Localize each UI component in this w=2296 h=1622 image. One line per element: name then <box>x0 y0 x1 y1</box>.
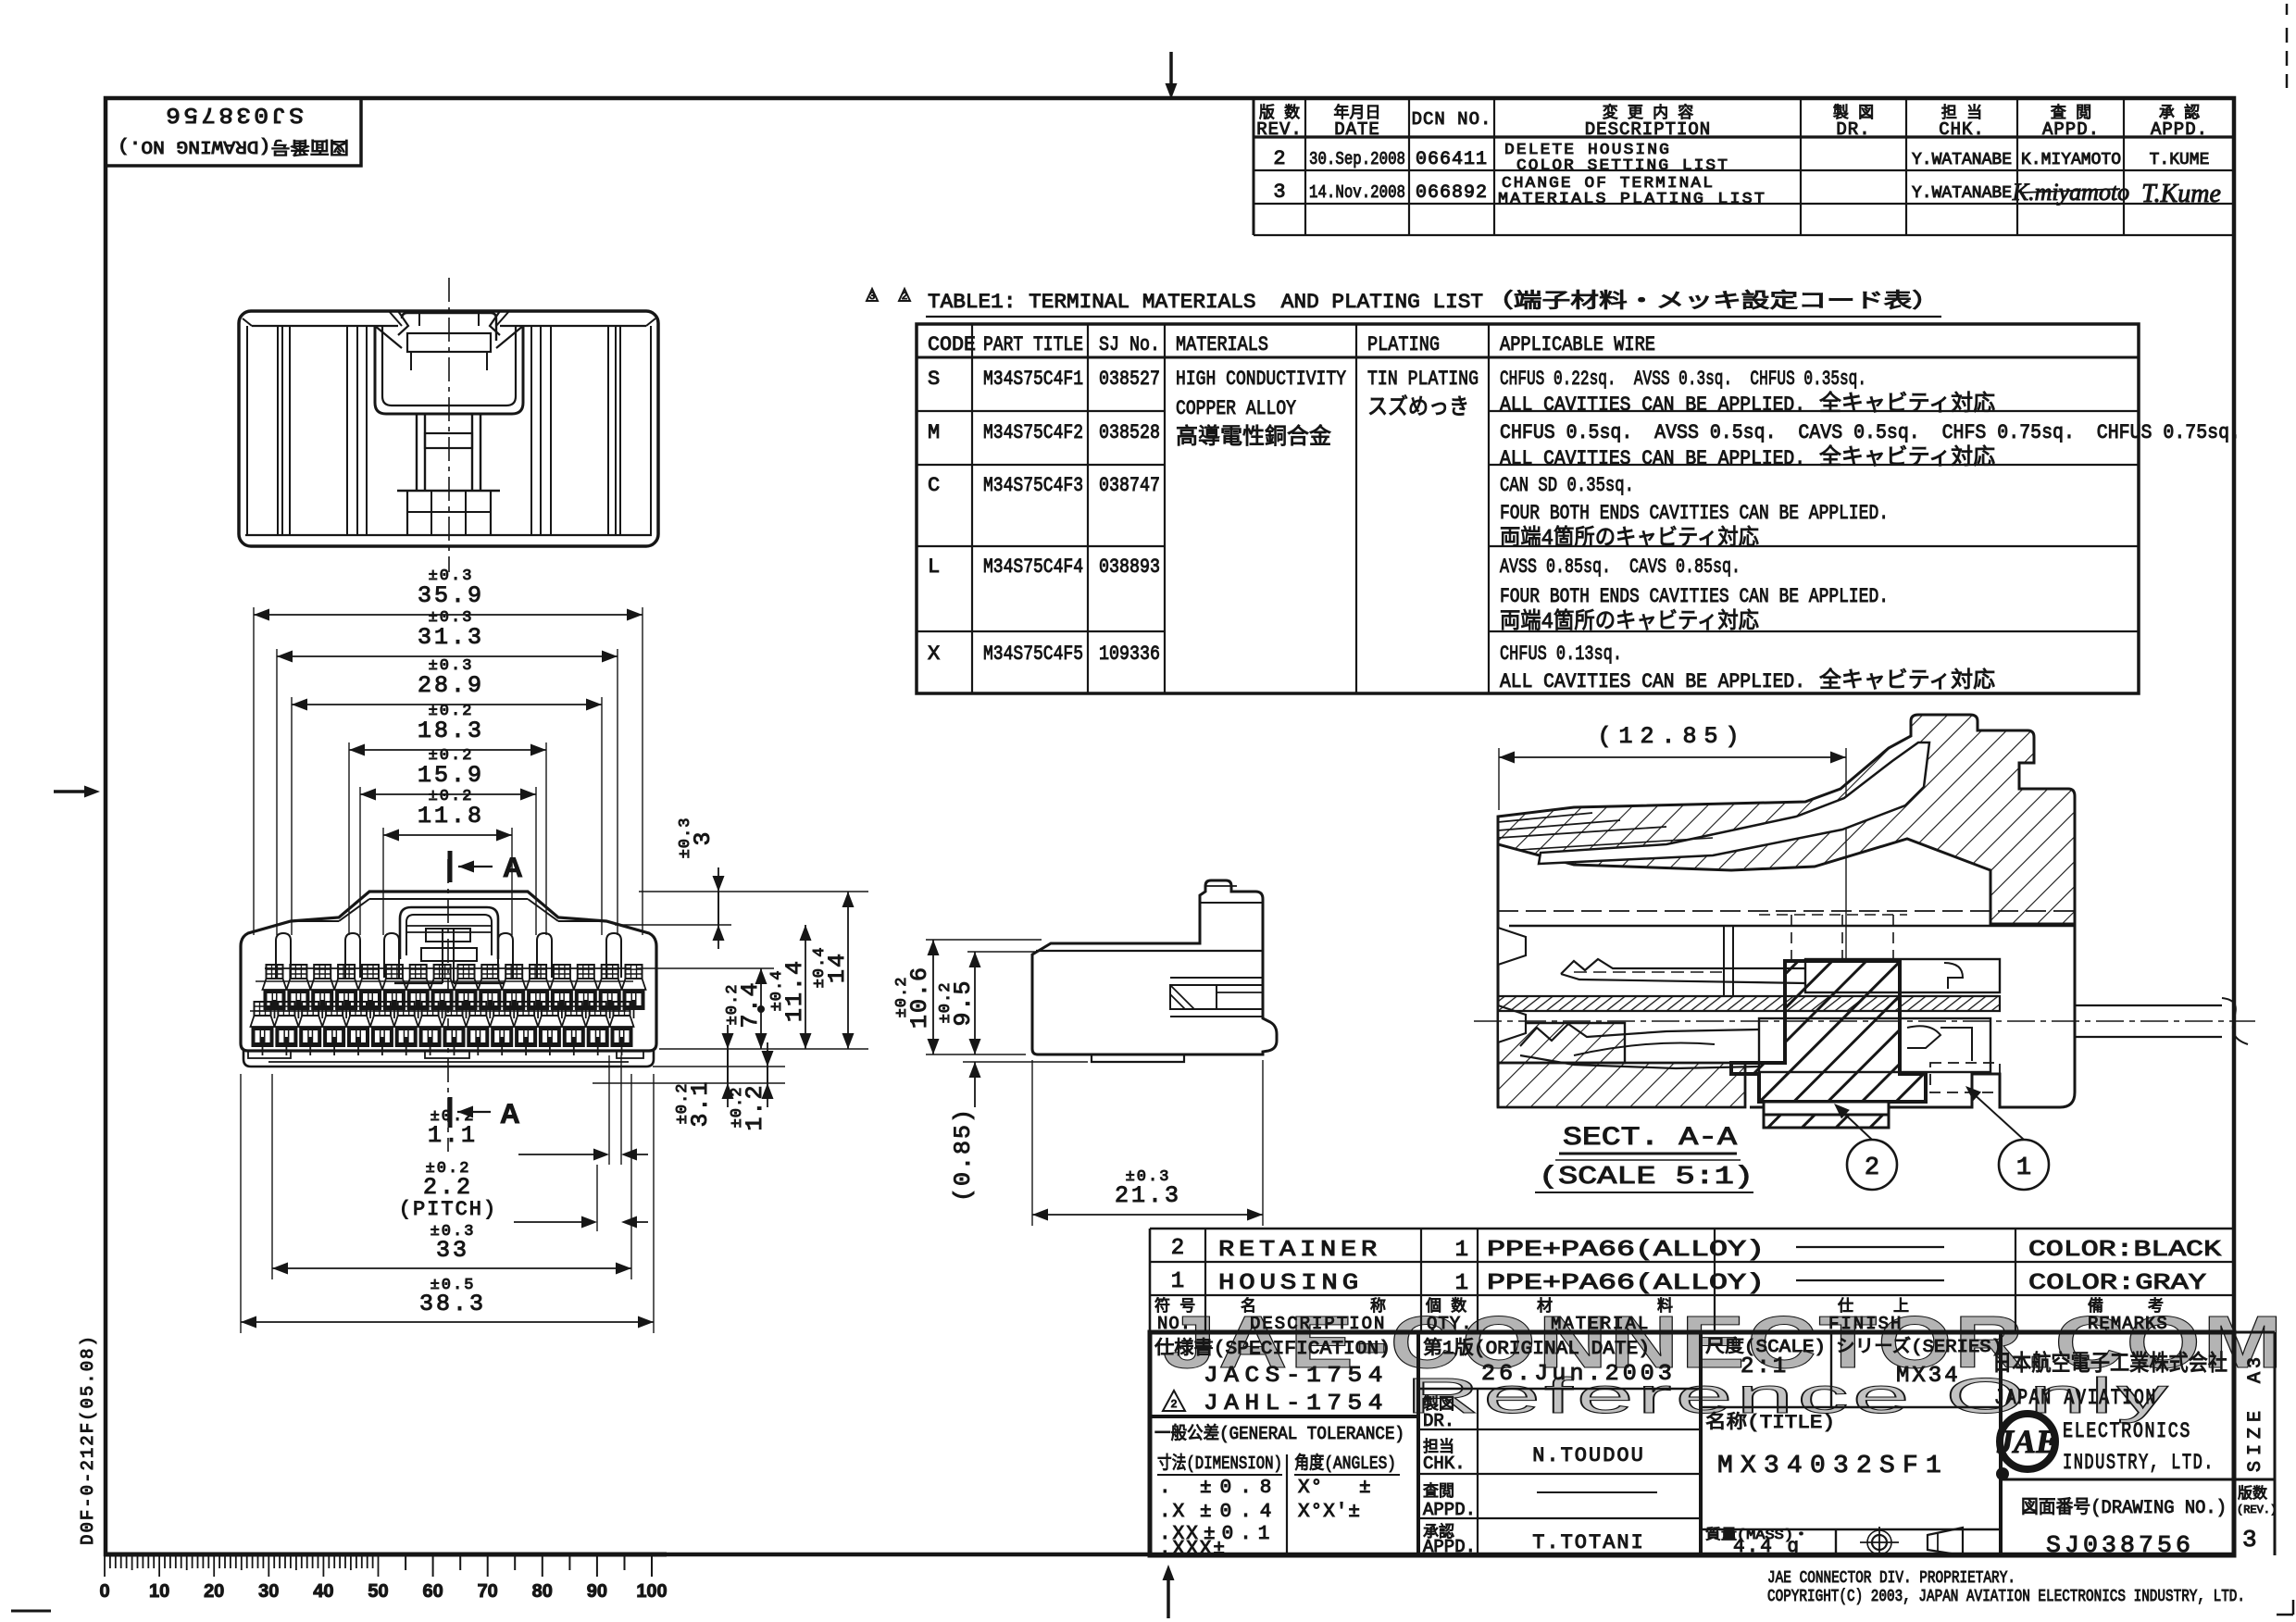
section hidden line <box>1498 910 2075 912</box>
svg-text:両端4箇所のキャビティ対応: 両端4箇所のキャビティ対応 <box>1500 608 1759 635</box>
svg-text:M34S75C4F1: M34S75C4F1 <box>983 368 1083 391</box>
svg-text:L: L <box>928 555 940 579</box>
svg-text:4.4 g: 4.4 g <box>1733 1537 1801 1558</box>
rotated drawing number box <box>106 98 361 166</box>
svg-text:SJ No.: SJ No. <box>1099 333 1160 356</box>
side view outline <box>1032 880 1277 1054</box>
svg-text:50: 50 <box>368 1581 388 1602</box>
svg-text:COLOR SETTING LIST: COLOR SETTING LIST <box>1516 157 1729 175</box>
svg-text:(REV.): (REV.) <box>2237 1503 2277 1516</box>
svg-text:DATE: DATE <box>1334 119 1380 140</box>
svg-text:11.8: 11.8 <box>418 803 484 830</box>
svg-text:T.Kume: T.Kume <box>2141 180 2221 208</box>
svg-text:3: 3 <box>869 292 876 303</box>
svg-text:SIZE: SIZE <box>2245 1405 2266 1472</box>
side view left dims <box>926 939 1042 941</box>
svg-text:APPD.: APPD. <box>2151 119 2208 140</box>
rear view inner lines <box>252 325 398 327</box>
svg-text:70: 70 <box>478 1581 498 1602</box>
svg-text:全キャビティ対応: 全キャビティ対応 <box>1819 668 1995 694</box>
svg-text:.: . <box>1159 1478 1171 1499</box>
svg-text:全キャビティ対応: 全キャビティ対応 <box>1819 391 1995 418</box>
section cut marks A-A <box>448 851 453 882</box>
svg-text:D0F-0-212F(05.08): D0F-0-212F(05.08) <box>78 1334 98 1545</box>
svg-text:038747: 038747 <box>1099 474 1160 497</box>
svg-text:SECT. A-A: SECT. A-A <box>1563 1124 1737 1153</box>
svg-text:名称(TITLE): 名称(TITLE) <box>1705 1411 1835 1434</box>
trim mark bottom left <box>11 1610 51 1613</box>
svg-text:066411: 066411 <box>1416 149 1488 170</box>
svg-text:038528: 038528 <box>1099 421 1160 444</box>
svg-text:14: 14 <box>824 952 851 983</box>
wire stub <box>2075 1004 2222 1006</box>
svg-text:38.3: 38.3 <box>419 1291 486 1317</box>
rear view center structure <box>398 311 408 335</box>
front view centerline <box>447 859 449 1152</box>
svg-text:図面番号(DRAWING NO.): 図面番号(DRAWING NO.) <box>118 136 349 157</box>
svg-text:M34S75C4F4: M34S75C4F4 <box>983 555 1083 579</box>
trim mark bottom right <box>2277 1614 2293 1616</box>
svg-text:寸法(DIMENSION): 寸法(DIMENSION) <box>1157 1453 1282 1474</box>
svg-text:MATERIALS: MATERIALS <box>1176 333 1268 356</box>
retainer (part 2) <box>1731 961 1926 1102</box>
svg-text:10.6: 10.6 <box>906 966 933 1029</box>
balloon 1 <box>1999 1140 2049 1190</box>
svg-text:Y.WATANABE: Y.WATANABE <box>1912 151 2012 169</box>
svg-text:DESCRIPTION: DESCRIPTION <box>1585 119 1711 140</box>
svg-text:21.3: 21.3 <box>1115 1182 1181 1209</box>
svg-text:26.Jun.2003: 26.Jun.2003 <box>1481 1362 1676 1387</box>
svg-text:10: 10 <box>149 1581 169 1602</box>
svg-text:第1版(ORIGINAL DATE): 第1版(ORIGINAL DATE) <box>1423 1337 1650 1360</box>
svg-text:M: M <box>928 421 940 444</box>
svg-text:査閲: 査閲 <box>1423 1482 1454 1502</box>
svg-text:CHK.: CHK. <box>1423 1454 1466 1474</box>
svg-text:C: C <box>928 474 940 497</box>
svg-text:A3: A3 <box>2245 1354 2266 1383</box>
upper terminal <box>1561 959 1805 974</box>
svg-text:2: 2 <box>1170 1398 1177 1411</box>
svg-text:COPPER ALLOY: COPPER ALLOY <box>1176 397 1296 420</box>
trim mark top right <box>2286 4 2289 15</box>
svg-text:TIN PLATING: TIN PLATING <box>1367 368 1479 391</box>
revision table <box>1253 98 1255 235</box>
svg-text:±0.4: ±0.4 <box>1200 1502 1279 1523</box>
revision triangles <box>867 289 878 301</box>
svg-text:TABLE1: TERMINAL MATERIALS AN: TABLE1: TERMINAL MATERIALS AND PLATING L… <box>928 291 1483 314</box>
svg-text:90: 90 <box>587 1581 607 1602</box>
svg-text:DR.: DR. <box>1836 119 1870 140</box>
svg-text:仕様書(SPECIFICATION): 仕様書(SPECIFICATION) <box>1154 1337 1391 1360</box>
fold mark left <box>54 786 100 798</box>
svg-text:109336: 109336 <box>1099 643 1160 666</box>
svg-text:X: X <box>928 643 940 666</box>
svg-text:31.3: 31.3 <box>418 624 484 651</box>
svg-text:15.9: 15.9 <box>418 762 484 789</box>
hidden dashed details <box>1791 915 1792 959</box>
svg-text:.X: .X <box>1159 1502 1186 1523</box>
front view roof lines <box>291 920 339 922</box>
scale box <box>1830 1332 1832 1407</box>
JAE logo <box>2000 1414 2055 1469</box>
svg-text:シリーズ(SERIES): シリーズ(SERIES) <box>1836 1336 2003 1357</box>
svg-text:全キャビティ対応: 全キャビティ対応 <box>1819 444 1995 471</box>
svg-text:S: S <box>928 368 940 391</box>
svg-text:100: 100 <box>636 1581 667 1602</box>
svg-text:JAPAN AVIATION: JAPAN AVIATION <box>1994 1386 2157 1410</box>
front view center latch <box>400 907 498 959</box>
svg-text:±0.2: ±0.2 <box>429 747 474 765</box>
svg-text:33: 33 <box>436 1237 469 1264</box>
svg-text:JACS-1754: JACS-1754 <box>1204 1364 1389 1389</box>
svg-text:HOUSING: HOUSING <box>1218 1271 1363 1296</box>
fold mark top <box>1166 52 1178 99</box>
svg-text:APPD.: APPD. <box>2042 119 2100 140</box>
svg-text:ALL CAVITIES CAN BE APPLIED.: ALL CAVITIES CAN BE APPLIED. <box>1500 447 1805 470</box>
svg-text:CHFUS 0.13sq.: CHFUS 0.13sq. <box>1500 643 1622 666</box>
svg-text:±0.3: ±0.3 <box>429 609 474 627</box>
svg-text:Y.WATANABE: Y.WATANABE <box>1912 184 2012 203</box>
svg-text:80: 80 <box>532 1581 553 1602</box>
svg-text:日本航空電子工業株式会社: 日本航空電子工業株式会社 <box>1992 1351 2227 1378</box>
svg-text:±: ± <box>1359 1478 1371 1499</box>
spec box <box>1416 1332 1420 1555</box>
svg-text:2.2: 2.2 <box>423 1174 473 1201</box>
svg-text:30.Sep.2008: 30.Sep.2008 <box>1309 149 1405 169</box>
svg-text:PPE+PA66(ALLOY): PPE+PA66(ALLOY) <box>1487 1238 1765 1263</box>
svg-text:(SCALE 5:1): (SCALE 5:1) <box>1539 1164 1753 1192</box>
svg-text:(12.85): (12.85) <box>1597 723 1746 750</box>
svg-text:COPYRIGHT(C) 2003, JAPAN AVIAT: COPYRIGHT(C) 2003, JAPAN AVIATION ELECTR… <box>1767 1588 2245 1606</box>
svg-text:両端4箇所のキャビティ対応: 両端4箇所のキャビティ対応 <box>1500 525 1759 552</box>
svg-text:料: 料 <box>1657 1297 1673 1316</box>
front view guide posts <box>276 933 291 978</box>
svg-text:CODE: CODE <box>928 333 976 356</box>
rear view centerline <box>448 278 450 572</box>
svg-text:(PITCH): (PITCH) <box>399 1198 497 1221</box>
svg-text:18.3: 18.3 <box>418 717 484 744</box>
svg-text:14.Nov.2008: 14.Nov.2008 <box>1309 182 1405 203</box>
svg-text:T.KUME: T.KUME <box>2150 151 2210 169</box>
parts list table <box>1150 1228 2234 1230</box>
svg-text:COLOR:BLACK: COLOR:BLACK <box>2028 1238 2222 1263</box>
table1 <box>917 324 2139 693</box>
svg-text:±0.3: ±0.3 <box>429 657 474 675</box>
cavity wall pair <box>1723 926 1725 996</box>
svg-text:1: 1 <box>2016 1154 2031 1182</box>
svg-text:7.4: 7.4 <box>737 980 764 1028</box>
svg-text:28.9: 28.9 <box>418 672 484 699</box>
svg-text:A: A <box>500 1099 520 1129</box>
front view bottom strip <box>243 1051 654 1067</box>
svg-text:M34S75C4F5: M34S75C4F5 <box>983 643 1083 666</box>
svg-text:DCN NO.: DCN NO. <box>1412 109 1492 130</box>
side view bottom tab <box>1092 1054 1184 1062</box>
mass box <box>1701 1528 2001 1530</box>
svg-text:30: 30 <box>258 1581 279 1602</box>
svg-text:CHFUS 0.22sq. AVSS 0.3sq. CH: CHFUS 0.22sq. AVSS 0.3sq. CHFUS 0.35sq. <box>1500 368 1866 391</box>
svg-text:DR.: DR. <box>1423 1411 1454 1431</box>
svg-text:2: 2 <box>1865 1154 1879 1182</box>
svg-text:60: 60 <box>422 1581 443 1602</box>
svg-text:FOUR BOTH ENDS CAVITIES CAN BE: FOUR BOTH ENDS CAVITIES CAN BE APPLIED. <box>1500 585 1889 608</box>
svg-text:角度(ANGLES): 角度(ANGLES) <box>1294 1453 1396 1474</box>
svg-text:3: 3 <box>2242 1526 2257 1553</box>
svg-text:MX34: MX34 <box>1896 1364 1961 1389</box>
svg-text:HIGH CONDUCTIVITY: HIGH CONDUCTIVITY <box>1176 368 1346 391</box>
svg-text:一般公差(GENERAL TOLERANCE): 一般公差(GENERAL TOLERANCE) <box>1154 1423 1404 1444</box>
svg-text:APPLICABLE WIRE: APPLICABLE WIRE <box>1500 333 1655 356</box>
svg-text:M34S75C4F3: M34S75C4F3 <box>983 474 1083 497</box>
svg-text:M34S75C4F2: M34S75C4F2 <box>983 421 1083 444</box>
svg-text:A: A <box>503 853 523 883</box>
svg-text:2: 2 <box>1171 1236 1184 1261</box>
svg-text:ALL CAVITIES CAN BE APPLIED.: ALL CAVITIES CAN BE APPLIED. <box>1500 670 1805 693</box>
svg-text:±0.8: ±0.8 <box>1200 1478 1279 1499</box>
wire centerline <box>1474 1020 2255 1022</box>
wire seal strip (dense hatch) <box>1498 996 2000 1011</box>
balloon 2 <box>1847 1140 1897 1190</box>
svg-text:SJ038756: SJ038756 <box>2046 1531 2194 1559</box>
svg-text:CAN SD 0.35sq.: CAN SD 0.35sq. <box>1500 474 1634 497</box>
side view cavity <box>1170 977 1263 979</box>
lower terminal <box>1520 1024 1759 1046</box>
fold mark bottom <box>1163 1565 1175 1618</box>
svg-text:CHFUS 0.5sq. AVSS 0.5sq. CAV: CHFUS 0.5sq. AVSS 0.5sq. CAVS 0.5sq. CHF… <box>1500 421 2240 444</box>
ruler <box>105 1553 667 1557</box>
svg-text:JAE: JAE <box>1996 1423 2058 1460</box>
svg-text:1: 1 <box>1455 1238 1468 1263</box>
front view pin shelf lines <box>265 967 631 969</box>
svg-text:JAHL-1754: JAHL-1754 <box>1204 1391 1389 1416</box>
svg-text:038527: 038527 <box>1099 368 1160 391</box>
svg-text:11.4: 11.4 <box>781 959 808 1022</box>
svg-text:ELECTRONICS: ELECTRONICS <box>2063 1419 2191 1443</box>
svg-text:0: 0 <box>99 1581 109 1602</box>
svg-text:2:1: 2:1 <box>1741 1354 1789 1379</box>
title block outer <box>1150 1332 2234 1555</box>
svg-text:版数: 版数 <box>2238 1485 2267 1503</box>
front view outline <box>241 892 656 1051</box>
svg-text:AVSS 0.85sq. CAVS 0.85sq.: AVSS 0.85sq. CAVS 0.85sq. <box>1500 555 1741 579</box>
svg-text:(0.85): (0.85) <box>950 1107 977 1202</box>
svg-text:.XXX±: .XXX± <box>1159 1539 1227 1560</box>
svg-text:1.1: 1.1 <box>428 1122 478 1149</box>
svg-text:±0.2: ±0.2 <box>429 703 474 720</box>
svg-text:CHK.: CHK. <box>1939 119 1985 140</box>
svg-text:RETAINER: RETAINER <box>1218 1238 1381 1263</box>
svg-text:20: 20 <box>204 1581 224 1602</box>
svg-text:9.5: 9.5 <box>950 979 977 1026</box>
rear view outline <box>239 311 658 546</box>
svg-text:±0.3: ±0.3 <box>429 568 474 585</box>
svg-text:K.MIYAMOTO: K.MIYAMOTO <box>2021 151 2121 169</box>
svg-text:APPD.: APPD. <box>1423 1500 1476 1520</box>
svg-text:2: 2 <box>1273 147 1285 170</box>
svg-text:FOUR BOTH ENDS CAVITIES CAN BE: FOUR BOTH ENDS CAVITIES CAN BE APPLIED. <box>1500 502 1889 525</box>
svg-text:038893: 038893 <box>1099 555 1160 579</box>
svg-text:MATERIALS PLATING LIST: MATERIALS PLATING LIST <box>1498 191 1766 208</box>
svg-text:X°X′±: X°X′± <box>1298 1502 1361 1523</box>
svg-text:1: 1 <box>1171 1269 1184 1294</box>
svg-text:3: 3 <box>1273 181 1285 204</box>
svg-text:PART TITLE: PART TITLE <box>983 333 1083 356</box>
svg-text:PLATING: PLATING <box>1367 333 1440 356</box>
svg-text:35.9: 35.9 <box>418 582 484 609</box>
svg-text:図面番号(DRAWING NO.): 図面番号(DRAWING NO.) <box>2021 1496 2227 1519</box>
svg-text:N.TOUDOU: N.TOUDOU <box>1532 1444 1645 1467</box>
svg-text:COLOR:GRAY: COLOR:GRAY <box>2028 1271 2206 1296</box>
svg-text:（端子材料・メッキ設定コード表）: （端子材料・メッキ設定コード表） <box>1485 290 1940 314</box>
svg-text:1.2: 1.2 <box>742 1083 768 1130</box>
svg-text:40: 40 <box>313 1581 333 1602</box>
svg-text:066892: 066892 <box>1416 182 1488 204</box>
right side dimensions <box>639 891 868 892</box>
svg-text:高導電性銅合金: 高導電性銅合金 <box>1176 424 1331 451</box>
section view hatched body <box>1498 715 2075 924</box>
svg-text:PPE+PA66(ALLOY): PPE+PA66(ALLOY) <box>1487 1271 1765 1296</box>
svg-text:T.TOTANI: T.TOTANI <box>1532 1531 1645 1554</box>
front view top dimensions <box>254 614 643 616</box>
svg-text:MX34032SF1: MX34032SF1 <box>1717 1453 1949 1480</box>
svg-text:±0.2: ±0.2 <box>429 788 474 805</box>
JAE company box <box>1999 1332 2003 1555</box>
svg-text:SJ038756: SJ038756 <box>163 101 304 126</box>
svg-text:REV.: REV. <box>1256 119 1303 140</box>
svg-text:X°: X° <box>1298 1478 1323 1499</box>
svg-text:スズめっき: スズめっき <box>1367 394 1469 421</box>
svg-text:APPD.: APPD. <box>1423 1537 1476 1557</box>
projection symbol <box>1872 1535 1887 1550</box>
right wall <box>1750 924 2075 1107</box>
svg-text:2: 2 <box>902 292 908 303</box>
svg-text:JAE CONNECTOR DIV. PROPRIETARY: JAE CONNECTOR DIV. PROPRIETARY. <box>1767 1569 2015 1588</box>
svg-text:1: 1 <box>1455 1271 1468 1296</box>
svg-text:INDUSTRY, LTD.: INDUSTRY, LTD. <box>2063 1451 2215 1475</box>
svg-text:3.1: 3.1 <box>687 1079 714 1127</box>
svg-text:3: 3 <box>690 830 717 845</box>
size strip <box>2234 1331 2275 1334</box>
svg-text:ALL CAVITIES CAN BE APPLIED.: ALL CAVITIES CAN BE APPLIED. <box>1500 393 1805 417</box>
